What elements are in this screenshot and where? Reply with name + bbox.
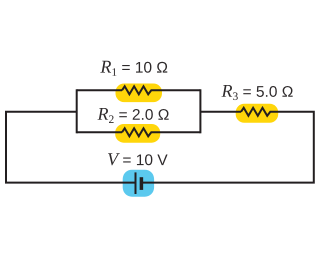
resistor R3 zigzag (241, 108, 273, 116)
wire: box left edge (76, 89, 78, 133)
resistor R3 highlight (236, 104, 279, 123)
wire: R3 run to box (200, 111, 241, 113)
resistor R1 zigzag (122, 86, 154, 94)
label R3 = 5.0 ohm (221, 85, 292, 100)
wire: box bottom edge left segment (77, 131, 122, 133)
wire: bottom-right run, right vertical, top-right run (143, 112, 314, 183)
battery V short thick plate (140, 177, 144, 190)
label V = 10 V (108, 153, 168, 165)
wire: box top edge left segment (77, 89, 122, 91)
wire: left middle run, left vertical, bottom-left run (6, 112, 136, 183)
wire: box right edge (199, 89, 201, 133)
resistor R2 zigzag (122, 128, 154, 136)
wire: box bottom edge right segment (154, 131, 200, 133)
battery V long plate (135, 172, 137, 194)
label R1 = 10 ohm (100, 61, 167, 76)
resistor R1 highlight (116, 84, 163, 103)
resistor R2 highlight (115, 124, 160, 143)
battery V highlight (123, 170, 154, 197)
label R2 = 2.0 ohm (97, 108, 168, 123)
wire: box top edge right segment (154, 89, 200, 91)
